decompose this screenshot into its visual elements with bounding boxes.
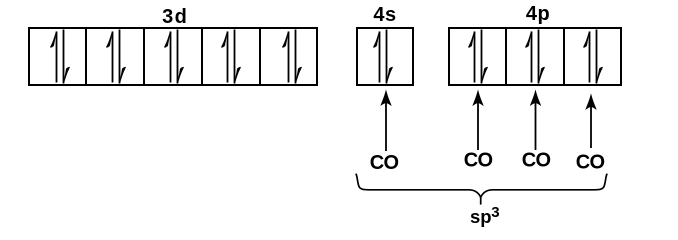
3d electron pair 4 [221,30,241,84]
4p box divider 1 [505,27,507,86]
svg-text:4p: 4p [526,3,550,25]
3d electron pair 5 [282,30,302,84]
svg-text:CO: CO [370,152,399,174]
CO arrow 1 (to 4s) [380,89,391,151]
3d orbital block (5 boxes) [29,28,317,85]
3d electron pair 3 [164,30,184,84]
4p electron pair 3 [583,30,603,84]
3d box divider 3 [201,27,203,86]
3d electron pair 1 [50,30,70,84]
svg-text:CO: CO [576,152,605,174]
CO arrow 3 (to 4p box 2) [530,89,541,150]
3d box divider 2 [143,27,145,86]
4s orbital box [357,28,413,85]
3d electron pair 2 [106,30,126,84]
svg-text:sp: sp [470,206,492,227]
CO arrow 4 (to 4p box 3) [585,93,596,148]
svg-text:3d: 3d [162,6,188,28]
4p electron pair 2 [525,30,545,84]
curly brace cusp stem [480,197,482,205]
svg-text:CO: CO [522,150,551,172]
curly brace grouping sp3 hybrid orbitals [356,174,607,198]
4s electron pair [373,30,393,84]
3d box divider 1 [85,27,87,86]
4p box divider 2 [563,27,565,86]
4p electron pair 1 [468,30,488,84]
4p orbital block (3 boxes) [449,28,621,85]
svg-text:CO: CO [464,150,493,172]
CO arrow 2 (to 4p box 1) [472,89,483,150]
svg-text:4s: 4s [373,4,396,26]
svg-text:3: 3 [491,204,499,221]
3d box divider 4 [259,27,261,86]
